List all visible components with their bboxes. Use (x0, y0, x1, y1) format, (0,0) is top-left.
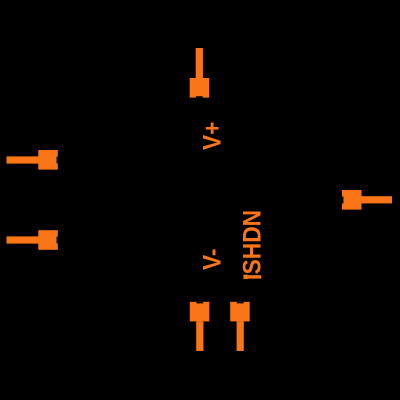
pin !SHDN label: bang bar (244, 275, 262, 278)
pin OUT (right): pad (342, 190, 362, 210)
svg-text:V+: V+ (199, 122, 227, 150)
pin !SHDN (bottom right): wire (237, 321, 244, 351)
pin IN- (left lower): wire (7, 236, 39, 243)
pin IN- (left lower): pad (38, 230, 58, 250)
pin V+ (top): wire (196, 48, 203, 78)
pin OUT (right): wire (362, 196, 393, 203)
pin !SHDN label: bang dot (243, 275, 247, 280)
pin IN- (left lower): pad notch (57, 237, 59, 244)
pin !SHDN (bottom right): pad (230, 302, 250, 322)
svg-text:SHDN: SHDN (239, 210, 267, 274)
pin V- (bottom left): wire (196, 321, 203, 351)
svg-text:V-: V- (199, 249, 227, 270)
pin !SHDN (bottom right): pad notch (237, 302, 244, 304)
pin IN+ (left upper): wire (7, 156, 39, 163)
pin V- (bottom left): pad notch (196, 302, 203, 304)
pin V+ (top): pad (190, 78, 210, 98)
pin V+ (top): pad notch (196, 96, 203, 98)
pin V- (bottom left): pad (190, 302, 210, 322)
pin IN+ (left upper): pad notch (57, 157, 59, 164)
pin OUT (right): pad notch (342, 197, 344, 204)
pin IN+ (left upper): pad (38, 150, 58, 170)
